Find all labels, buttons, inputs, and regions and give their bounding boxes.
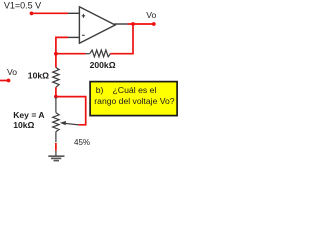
node V1 terminal dot [30, 12, 34, 16]
ground [48, 151, 64, 161]
resistor R1 zigzag [53, 68, 59, 88]
resistor R2 200k lead left [86, 53, 90, 55]
op-amp U1 - input pin stub [68, 36, 79, 38]
svg-text:Vo: Vo [7, 67, 17, 77]
potentiometer P1 wiper arrow [64, 123, 79, 125]
wire V1 to op-amp + input [32, 12, 69, 14]
svg-text:200kΩ: 200kΩ [90, 60, 116, 70]
svg-text:10kΩ: 10kΩ [28, 71, 49, 81]
wire op-amp output to Vo terminal [128, 23, 154, 25]
node A junction dot [54, 52, 58, 56]
op-amp U1 minus sign [82, 34, 85, 36]
potentiometer P1 zigzag [53, 113, 59, 132]
svg-text:10kΩ: 10kΩ [13, 120, 34, 130]
svg-text:b): b) [96, 85, 104, 95]
potentiometer P1 top lead [55, 97, 57, 113]
svg-text:45%: 45% [74, 138, 90, 147]
node B junction dot [54, 95, 58, 99]
wire node A to resistor R2 [56, 53, 86, 55]
svg-text:¿Cuál es el: ¿Cuál es el [113, 85, 157, 95]
Vo output terminal dot [152, 22, 156, 26]
note box [90, 82, 177, 116]
svg-text:Key = A: Key = A [13, 110, 44, 120]
op-amp U1 body [79, 7, 115, 43]
op-amp U1 plus sign [82, 14, 86, 18]
wire node A to resistor R1 [55, 54, 57, 68]
wire resistor R1 to node B [55, 87, 57, 96]
Vo left terminal wire stub [0, 80, 9, 82]
op-amp U1 + input pin stub [68, 12, 79, 14]
potentiometer P1 bottom lead [55, 132, 57, 143]
resistor R2 zigzag [90, 50, 111, 57]
wire - input to node A [56, 37, 68, 53]
wire potentiometer to ground [55, 143, 57, 151]
svg-text:V1=0.5 V: V1=0.5 V [4, 0, 41, 10]
wire resistor R2 to output node [110, 24, 133, 54]
svg-text:Vo: Vo [146, 10, 156, 20]
Vo left terminal dot [7, 79, 11, 83]
output node junction dot [131, 22, 135, 26]
wire node B to wiper (right loop) [56, 97, 86, 125]
op-amp U1 output pin stub [114, 23, 127, 25]
svg-text:rango del voltaje Vo?: rango del voltaje Vo? [94, 96, 174, 106]
